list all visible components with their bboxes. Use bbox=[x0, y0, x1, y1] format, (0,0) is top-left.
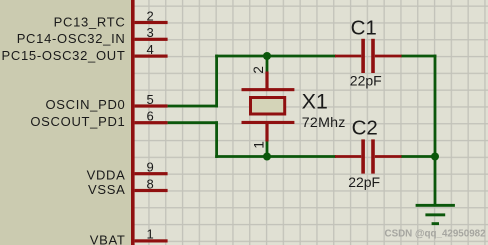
svg-text:CSDN @qq_42950982: CSDN @qq_42950982 bbox=[385, 229, 487, 240]
wire crystal bottom connection bbox=[266, 141, 269, 157]
svg-text:6: 6 bbox=[147, 109, 154, 124]
svg-text:72Mhz: 72Mhz bbox=[302, 115, 346, 131]
svg-text:22pF: 22pF bbox=[350, 72, 382, 88]
svg-text:4: 4 bbox=[147, 42, 154, 57]
wire right vertical rail bbox=[434, 55, 437, 158]
svg-text:5: 5 bbox=[147, 92, 154, 107]
wire bottom rail left segment bbox=[215, 155, 336, 158]
pin 5 OSCIN_PD0 bbox=[46, 92, 168, 112]
pin 6 OSCOUT_PD1 bbox=[30, 109, 167, 130]
pin 3 PC14-OSC32_IN bbox=[17, 25, 168, 46]
svg-text:X1: X1 bbox=[302, 89, 328, 113]
svg-text:OSCOUT_PD1: OSCOUT_PD1 bbox=[30, 114, 125, 129]
crystal X1 bbox=[242, 72, 295, 142]
svg-text:C2: C2 bbox=[352, 117, 378, 140]
wire riser pin5 to top rail bbox=[215, 55, 218, 108]
wire top rail left segment bbox=[215, 55, 336, 58]
svg-text:C1: C1 bbox=[351, 16, 377, 39]
junction node bottom rail / crystal bbox=[263, 153, 271, 161]
wire drop pin6 to bottom rail bbox=[215, 121, 218, 158]
svg-text:8: 8 bbox=[147, 176, 154, 191]
svg-text:PC15-OSC32_OUT: PC15-OSC32_OUT bbox=[2, 48, 126, 63]
svg-text:2: 2 bbox=[147, 8, 154, 23]
svg-text:PC14-OSC32_IN: PC14-OSC32_IN bbox=[17, 31, 126, 46]
svg-text:VDDA: VDDA bbox=[87, 167, 126, 182]
wire top rail right segment bbox=[401, 55, 436, 58]
ground bbox=[416, 204, 455, 225]
svg-text:VSSA: VSSA bbox=[88, 182, 125, 197]
junction node top rail / crystal bbox=[263, 52, 271, 60]
svg-text:22pF: 22pF bbox=[348, 174, 380, 190]
wire pin5 horizontal bbox=[168, 105, 218, 108]
wire ground drop bbox=[434, 157, 437, 205]
svg-text:9: 9 bbox=[147, 160, 154, 175]
pin 9 VDDA bbox=[87, 160, 168, 183]
pin 8 VSSA bbox=[88, 176, 168, 197]
svg-text:3: 3 bbox=[147, 25, 154, 40]
MCU chip body (left edge of U1) bbox=[0, 0, 135, 245]
svg-text:VBAT: VBAT bbox=[90, 233, 126, 245]
svg-text:2: 2 bbox=[251, 66, 266, 74]
pin 1 VBAT bbox=[90, 227, 168, 245]
svg-text:1: 1 bbox=[147, 227, 154, 242]
svg-text:1: 1 bbox=[251, 141, 266, 149]
wire crystal top connection bbox=[266, 56, 269, 72]
capacitor C1 bbox=[335, 39, 402, 73]
svg-text:OSCIN_PD0: OSCIN_PD0 bbox=[46, 97, 126, 112]
svg-text:PC13_RTC: PC13_RTC bbox=[54, 14, 126, 29]
capacitor C2 bbox=[335, 139, 402, 173]
wire bottom rail right segment bbox=[401, 155, 435, 158]
pin 2 PC13_RTC bbox=[54, 8, 168, 29]
pin 4 PC15-OSC32_OUT bbox=[2, 42, 168, 63]
junction node bottom rail / ground bbox=[431, 153, 439, 161]
wire pin6 horizontal bbox=[168, 121, 218, 124]
